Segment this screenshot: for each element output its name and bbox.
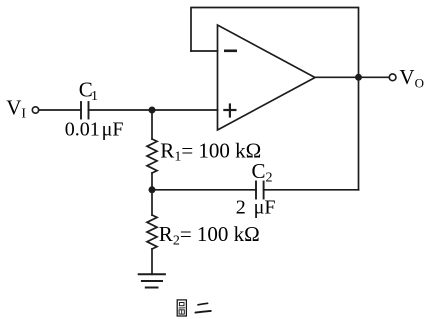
node output junction xyxy=(355,74,362,81)
capacitor C2 xyxy=(256,182,264,199)
wire feedback vertical to C2 xyxy=(358,77,360,190)
wire node to C2 xyxy=(152,189,256,191)
wire minus input xyxy=(191,50,218,52)
wire C2 to feedback xyxy=(264,189,359,191)
resistor R2 xyxy=(147,215,157,249)
svg-text:2: 2 xyxy=(236,196,246,218)
svg-text:μF: μF xyxy=(102,118,124,140)
wire R1 branch xyxy=(151,110,153,139)
capacitor C1 xyxy=(81,102,89,119)
op-amp plus sign xyxy=(223,103,236,117)
terminal VI xyxy=(32,107,38,113)
op-amp U1 xyxy=(218,25,316,130)
ground xyxy=(139,274,165,287)
wire R2 to ground xyxy=(151,249,153,274)
wire R1 to node xyxy=(151,173,153,190)
svg-text:μF: μF xyxy=(254,196,276,218)
caption figure 2 glyph TU xyxy=(177,300,186,316)
op-amp minus sign xyxy=(224,49,237,52)
node A junction xyxy=(149,107,156,114)
node B junction xyxy=(149,186,156,193)
caption figure 2 glyph ER xyxy=(195,303,210,312)
wire R2 branch xyxy=(151,190,153,215)
wire plus input xyxy=(89,109,218,111)
wire input segment xyxy=(39,109,81,111)
resistor R1 xyxy=(147,139,157,173)
wire output xyxy=(315,76,389,78)
terminal VO xyxy=(389,74,396,81)
svg-text:0.01: 0.01 xyxy=(65,118,100,140)
wire top feedback rail xyxy=(191,8,359,78)
